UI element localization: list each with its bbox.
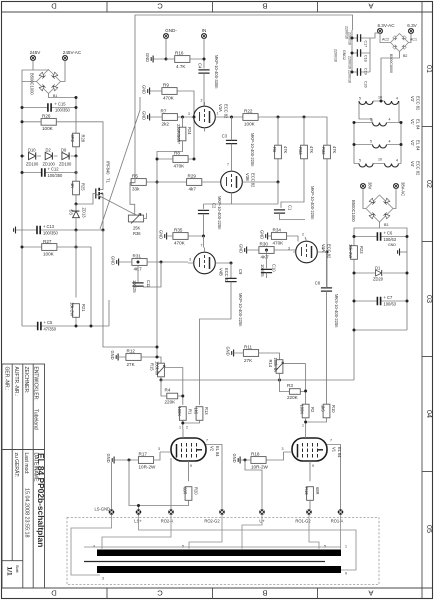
svg-text:220R/56R*: 220R/56R*: [176, 124, 181, 144]
svg-text:05: 05: [425, 525, 434, 533]
svg-text:R30: R30: [260, 242, 269, 247]
svg-text:4: 4: [389, 140, 391, 144]
svg-text:470K: 470K: [273, 241, 285, 246]
svg-text:38V: 38V: [368, 182, 373, 190]
svg-text:EL 84: EL 84: [337, 447, 342, 458]
svg-text:2200/16: 2200/16: [345, 26, 349, 39]
svg-text:+ C12: + C12: [48, 167, 60, 172]
svg-text:GND: GND: [106, 454, 111, 463]
svg-text:GND: GND: [239, 244, 244, 253]
svg-text:5: 5: [359, 97, 361, 101]
svg-text:C19: C19: [364, 68, 368, 75]
svg-text:C20: C20: [364, 81, 368, 88]
svg-text:27K: 27K: [127, 362, 136, 367]
svg-text:C: C: [157, 589, 163, 598]
svg-text:+ C6: + C6: [384, 231, 393, 236]
svg-text:GND: GND: [145, 53, 150, 62]
svg-text:V1': V1': [410, 119, 415, 125]
svg-text:B500C1000: B500C1000: [351, 200, 356, 222]
svg-text:9: 9: [190, 464, 192, 468]
svg-text:100/350: 100/350: [43, 230, 59, 235]
svg-text:GND: GND: [260, 230, 265, 239]
svg-text:ZD100: ZD100: [59, 162, 72, 167]
svg-text:68R: 68R: [183, 487, 188, 495]
svg-text:B: B: [262, 2, 267, 11]
svg-text:2: 2: [302, 233, 304, 237]
svg-text:5: 5: [370, 140, 372, 144]
svg-text:R27: R27: [43, 239, 52, 244]
svg-text:2200/16: 2200/16: [348, 56, 352, 69]
svg-text:V3A: V3A: [218, 104, 223, 112]
svg-text:Last mod:: Last mod:: [23, 453, 29, 475]
svg-text:R3: R3: [287, 383, 293, 388]
svg-text:47/350: 47/350: [44, 327, 57, 332]
svg-text:ECC 82: ECC 82: [416, 96, 421, 111]
svg-text:RO2-A: RO2-A: [161, 519, 174, 524]
svg-text:Tubeland: Tubeland: [33, 409, 39, 430]
svg-text:D10: D10: [28, 148, 36, 153]
svg-text:C: C: [157, 2, 163, 11]
svg-text:R16: R16: [175, 51, 184, 56]
svg-text:C4: C4: [198, 63, 203, 69]
svg-text:GER.-NR.:: GER.-NR.:: [4, 367, 10, 391]
svg-text:5: 5: [359, 159, 361, 163]
svg-text:GND: GND: [232, 454, 237, 463]
svg-text:3: 3: [102, 577, 104, 581]
svg-text:68R: 68R: [315, 487, 320, 495]
svg-text:R22: R22: [244, 109, 253, 114]
svg-text:100K: 100K: [244, 122, 256, 127]
svg-text:B3: B3: [384, 223, 388, 227]
svg-text:R13: R13: [204, 407, 209, 415]
svg-text:1: 1: [302, 424, 304, 428]
svg-text:1: 1: [217, 112, 219, 116]
svg-text:R15: R15: [150, 363, 155, 371]
svg-text:10k-2W: 10k-2W: [70, 302, 75, 316]
svg-text:1k5: 1k5: [321, 405, 326, 412]
svg-text:3: 3: [158, 447, 160, 451]
svg-text:3: 3: [189, 258, 191, 262]
svg-text:2: 2: [201, 99, 203, 103]
svg-text:EL 84: EL 84: [416, 119, 421, 130]
svg-text:R36: R36: [133, 231, 141, 236]
svg-text:R14: R14: [268, 360, 273, 368]
svg-text:R11: R11: [244, 345, 253, 350]
svg-text:R23: R23: [359, 246, 364, 254]
svg-text:1: 1: [345, 545, 347, 549]
svg-text:25K: 25K: [133, 226, 141, 231]
svg-text:245V-AC: 245V-AC: [63, 50, 82, 55]
svg-text:100/63: 100/63: [384, 302, 397, 307]
svg-text:100K: 100K: [300, 405, 305, 415]
svg-text:47K: 47K: [332, 146, 337, 154]
svg-text:27K: 27K: [244, 358, 253, 363]
svg-text:10: 10: [378, 96, 382, 100]
svg-text:9: 9: [312, 464, 314, 468]
svg-text:5: 5: [370, 118, 372, 122]
svg-text:C18: C18: [364, 55, 368, 62]
svg-text:R34: R34: [273, 228, 282, 233]
svg-text:R4: R4: [165, 388, 171, 393]
svg-text:6.3V-AC: 6.3V-AC: [377, 23, 395, 28]
svg-text:C8: C8: [315, 281, 321, 286]
svg-text:2k2: 2k2: [162, 122, 170, 127]
svg-text:RO1-A: RO1-A: [331, 519, 344, 524]
svg-text:B500C8000: B500C8000: [389, 54, 393, 73]
svg-text:B2: B2: [403, 54, 407, 58]
svg-text:4: 4: [389, 118, 391, 122]
svg-text:LS-GND: LS-GND: [95, 507, 111, 512]
svg-text:EL 84: EL 84: [215, 446, 220, 457]
svg-text:R32: R32: [321, 147, 326, 155]
svg-text:B500C1000: B500C1000: [30, 73, 35, 95]
svg-text:GND: GND: [388, 243, 396, 247]
svg-text:ECC 82: ECC 82: [251, 173, 256, 188]
svg-text:GND: GND: [110, 351, 115, 360]
svg-text:EL 84 PP02b-schaltplan: EL 84 PP02b-schaltplan: [36, 453, 46, 547]
svg-text:100/63: 100/63: [384, 237, 397, 242]
svg-text:38V-AC: 38V-AC: [401, 182, 406, 196]
svg-text:4.7K: 4.7K: [176, 64, 186, 69]
svg-text:1: 1: [179, 426, 181, 430]
svg-text:R25: R25: [81, 183, 86, 191]
svg-text:GND: GND: [142, 111, 147, 120]
svg-text:ECC 82: ECC 82: [224, 104, 229, 119]
svg-text:100K: 100K: [177, 407, 182, 417]
svg-text:D3: D3: [69, 210, 74, 216]
svg-text:C3: C3: [222, 134, 228, 139]
svg-text:1k5: 1k5: [194, 408, 199, 415]
svg-text:V4B: V4B: [219, 268, 224, 276]
svg-text:ZD13: ZD13: [82, 208, 87, 219]
svg-text:V3B: V3B: [245, 173, 250, 181]
svg-text:AC2: AC2: [382, 38, 389, 42]
svg-text:zu GERÄT:: zu GERÄT:: [13, 453, 20, 478]
svg-text:R31: R31: [133, 254, 142, 259]
svg-text:100K: 100K: [43, 252, 55, 257]
svg-text:15.04.2008 23:55:18: 15.04.2008 23:55:18: [24, 488, 30, 537]
svg-text:R17: R17: [139, 452, 148, 457]
svg-text:470K: 470K: [174, 164, 186, 169]
svg-text:ZEICHNER:: ZEICHNER:: [23, 367, 29, 394]
svg-text:GND: GND: [226, 347, 231, 356]
svg-text:B: B: [262, 589, 267, 598]
svg-text:+ C13: + C13: [43, 224, 55, 229]
svg-text:MKS-10-400-220n: MKS-10-400-220n: [334, 294, 339, 328]
svg-text:D9: D9: [61, 148, 67, 153]
svg-text:R8: R8: [174, 151, 180, 156]
svg-text:AC1: AC1: [410, 38, 417, 42]
svg-text:R9: R9: [163, 83, 169, 88]
svg-text:MKP-10-400-220n: MKP-10-400-220n: [238, 293, 243, 327]
svg-text:R33: R33: [298, 147, 303, 155]
svg-text:AUFTR.-NR.:: AUFTR.-NR.:: [13, 367, 19, 397]
svg-text:C17: C17: [364, 41, 368, 48]
svg-text:T1: T1: [106, 178, 111, 184]
svg-text:7: 7: [330, 439, 332, 443]
svg-text:7: 7: [201, 244, 203, 248]
svg-text:10: 10: [378, 158, 382, 162]
svg-text:R2: R2: [310, 407, 315, 413]
svg-text:02: 02: [425, 180, 434, 188]
svg-text:GND2: GND2: [342, 50, 346, 60]
svg-text:C10: C10: [272, 264, 277, 272]
svg-text:MKP-10-400-220n: MKP-10-400-220n: [310, 186, 315, 220]
svg-text:220K: 220K: [287, 395, 299, 400]
svg-text:IRF840: IRF840: [106, 161, 111, 175]
svg-text:GND-: GND-: [165, 28, 177, 33]
svg-text:4: 4: [396, 97, 398, 101]
svg-text:R24: R24: [187, 127, 192, 135]
svg-text:ZD100: ZD100: [26, 162, 39, 167]
svg-text:R6: R6: [272, 147, 277, 153]
svg-text:4: 4: [93, 545, 95, 549]
svg-text:ZD20: ZD20: [373, 277, 384, 282]
svg-text:V2': V2': [410, 140, 415, 146]
svg-text:4K7: 4K7: [261, 255, 270, 260]
svg-text:1/1: 1/1: [6, 567, 13, 576]
svg-text:D2: D2: [46, 148, 52, 153]
svg-text:ECC 82: ECC 82: [224, 268, 229, 283]
svg-text:GND: GND: [142, 85, 147, 94]
svg-text:220K: 220K: [165, 399, 177, 404]
svg-text:245V: 245V: [30, 50, 42, 55]
svg-text:1K: 1K: [70, 183, 75, 188]
svg-text:R26: R26: [42, 114, 51, 119]
svg-text:V4': V4': [410, 161, 415, 167]
svg-text:R21: R21: [81, 304, 86, 312]
svg-text:R20: R20: [194, 487, 199, 495]
svg-text:R10: R10: [331, 405, 336, 413]
svg-text:Blatt: Blatt: [15, 565, 19, 574]
svg-text:ENTWICKLER:: ENTWICKLER:: [33, 367, 39, 401]
svg-text:4k7: 4k7: [189, 187, 197, 192]
svg-text:5: 5: [324, 545, 326, 549]
svg-text:IN: IN: [202, 28, 207, 33]
svg-text:100/350: 100/350: [55, 108, 71, 113]
svg-text:ECC 82: ECC 82: [416, 161, 421, 176]
svg-text:9: 9: [345, 572, 347, 576]
svg-text:R19: R19: [304, 487, 309, 495]
svg-text:R29: R29: [188, 174, 197, 179]
svg-text:C9: C9: [238, 269, 243, 275]
svg-text:+ C15: + C15: [55, 102, 67, 107]
svg-text:5: 5: [182, 545, 184, 549]
svg-text:2: 2: [186, 426, 188, 430]
svg-text:V1: V1: [332, 447, 337, 453]
svg-text:GND: GND: [159, 230, 164, 239]
svg-text:47K: 47K: [283, 146, 288, 154]
svg-text:V2: V2: [210, 446, 215, 452]
svg-text:C2: C2: [212, 203, 217, 209]
svg-text:01: 01: [425, 65, 434, 73]
svg-text:V3': V3': [410, 96, 415, 102]
svg-text:GND: GND: [111, 256, 116, 265]
svg-text:D1: D1: [375, 266, 381, 271]
svg-text:10R-2W: 10R-2W: [251, 465, 269, 470]
svg-text:100/25: 100/25: [260, 264, 265, 277]
svg-text:7: 7: [206, 439, 208, 443]
svg-text:R12: R12: [127, 349, 136, 354]
svg-text:470K: 470K: [163, 96, 175, 101]
svg-text:3: 3: [288, 247, 290, 251]
svg-text:3: 3: [282, 447, 284, 451]
svg-text:R35: R35: [174, 228, 183, 233]
svg-text:2200/16: 2200/16: [348, 70, 352, 83]
svg-text:10k-2W: 10k-2W: [348, 244, 353, 258]
svg-text:2200/16: 2200/16: [334, 49, 338, 62]
svg-text:470K: 470K: [174, 241, 186, 246]
svg-text:04: 04: [425, 410, 434, 418]
svg-text:6.3V: 6.3V: [407, 23, 417, 28]
svg-text:+ C5: + C5: [44, 320, 53, 325]
svg-text:10R-2W: 10R-2W: [139, 465, 157, 470]
svg-text:V4A: V4A: [321, 244, 326, 252]
svg-text:100/25: 100/25: [132, 280, 137, 293]
svg-text:8R2: 8R2: [70, 135, 75, 143]
svg-text:4: 4: [396, 159, 398, 163]
svg-text:100K: 100K: [42, 126, 54, 131]
svg-text:100/350: 100/350: [48, 173, 64, 178]
svg-text:R1: R1: [188, 409, 193, 415]
svg-text:03: 03: [425, 295, 434, 303]
svg-text:MKP-10-400-220n: MKP-10-400-220n: [250, 133, 255, 167]
svg-text:7: 7: [227, 163, 229, 167]
svg-text:RO2-G2: RO2-G2: [204, 519, 220, 524]
svg-text:MKP-10-400-220n: MKP-10-400-220n: [217, 196, 222, 230]
svg-text:MKP-10-400-330n: MKP-10-400-330n: [214, 55, 219, 89]
svg-text:3: 3: [188, 112, 190, 116]
svg-text:33k: 33k: [132, 187, 140, 192]
svg-text:R28: R28: [81, 135, 86, 143]
svg-text:R18: R18: [251, 452, 260, 457]
svg-text:D: D: [51, 589, 57, 598]
svg-text:D: D: [51, 2, 57, 11]
svg-text:+ C7: + C7: [384, 295, 393, 300]
svg-text:R7: R7: [161, 109, 167, 114]
svg-text:C1: C1: [288, 205, 293, 211]
svg-text:EL 84: EL 84: [416, 140, 421, 151]
svg-text:C11: C11: [146, 280, 151, 288]
svg-text:47K: 47K: [309, 146, 314, 154]
